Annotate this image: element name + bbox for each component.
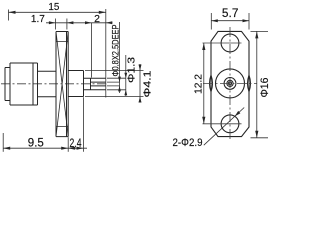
dim 2 arrows	[85, 21, 112, 24]
dim 15 arrows	[9, 11, 106, 14]
dim 5.7 line	[211, 20, 249, 22]
dim 1.7 arrows	[49, 21, 74, 24]
centerline left view	[1, 83, 108, 85]
dim 5.7 arrows	[211, 19, 249, 22]
svg-text:Φ16: Φ16	[259, 78, 271, 98]
svg-text:1.7: 1.7	[31, 13, 45, 25]
barrel internal line	[32, 63, 34, 105]
dim 15 line	[9, 11, 106, 13]
solder pin outline	[84, 78, 106, 90]
svg-text:2-Φ2.9: 2-Φ2.9	[173, 137, 203, 149]
dim 2.4 arrows	[68, 147, 83, 150]
left extension for 9.5	[2, 133, 4, 152]
dim 12.2 arrows	[202, 43, 205, 124]
center boss outer circle	[216, 69, 245, 98]
leader 2-phi2.9	[204, 108, 244, 146]
horizontal centerline front view	[203, 82, 257, 84]
connector barrel body	[10, 63, 38, 105]
right edge lens bump	[247, 75, 250, 92]
phi0.8 arrows	[118, 77, 121, 92]
dim 9.5/2.4 bottom line	[3, 147, 87, 149]
rear cylinder	[38, 71, 57, 97]
dim 5.7 extensions	[211, 13, 249, 30]
pin step / hole bottom	[90, 78, 92, 90]
svg-text:Φ1.3: Φ1.3	[126, 57, 138, 83]
dim 1.7/2 shared line	[46, 22, 113, 24]
phi4.1 arrows	[139, 65, 142, 103]
insulator circle	[224, 78, 236, 90]
dim 1.7 extensions	[55, 19, 67, 30]
phi0.8 dim line	[119, 22, 121, 93]
left edge lens bump	[209, 75, 212, 92]
dim 15 left extension	[8, 10, 10, 21]
svg-text:2: 2	[94, 13, 100, 25]
svg-text:5.7: 5.7	[222, 8, 239, 20]
dim 9.5 arrows	[3, 147, 68, 150]
phi1.3 extension lines	[107, 78, 126, 90]
phi4.1 extension lines	[85, 71, 144, 97]
top hole horizontal centerline	[203, 42, 242, 44]
svg-text:15: 15	[48, 1, 59, 13]
extension flange rear face	[67, 137, 69, 152]
phi0.8 extension lines	[107, 82, 120, 86]
dim phi16 arrows	[255, 31, 258, 137]
bottom hole horizontal centerline	[203, 123, 242, 125]
pin bore circle	[229, 82, 232, 85]
connector front step	[5, 68, 10, 101]
dim phi16 line	[256, 31, 258, 137]
vertical centerline front view	[229, 27, 231, 141]
svg-text:Φ4.1: Φ4.1	[141, 70, 153, 97]
phi4.1 dim line	[139, 64, 141, 103]
top mounting hole	[221, 34, 239, 52]
flange cross X	[56, 32, 68, 137]
phi1.3 dim line	[125, 55, 127, 96]
dim 12.2 line	[203, 43, 205, 124]
phi1.3 arrows	[124, 73, 127, 96]
svg-text:9.5: 9.5	[28, 135, 44, 149]
pin tip / extension line	[105, 9, 107, 98]
rear bushing	[68, 71, 83, 97]
flange outline with chamfered corners	[211, 31, 249, 136]
dim phi16 extensions	[251, 31, 269, 137]
svg-text:12.2: 12.2	[192, 74, 204, 94]
bottom mounting hole	[221, 115, 239, 133]
extension bushing rear face	[83, 97, 85, 152]
svg-text:Φ0.8X2.5DEEP: Φ0.8X2.5DEEP	[110, 25, 121, 77]
dim 2 extension	[91, 23, 93, 78]
flange plate side view	[56, 32, 68, 137]
svg-text:2.4: 2.4	[70, 136, 82, 150]
pin hole lines	[91, 82, 106, 86]
flange chamfer projection lines	[56, 42, 68, 127]
leader arrow 2-phi2.9	[235, 111, 241, 117]
socket circle	[227, 80, 233, 86]
